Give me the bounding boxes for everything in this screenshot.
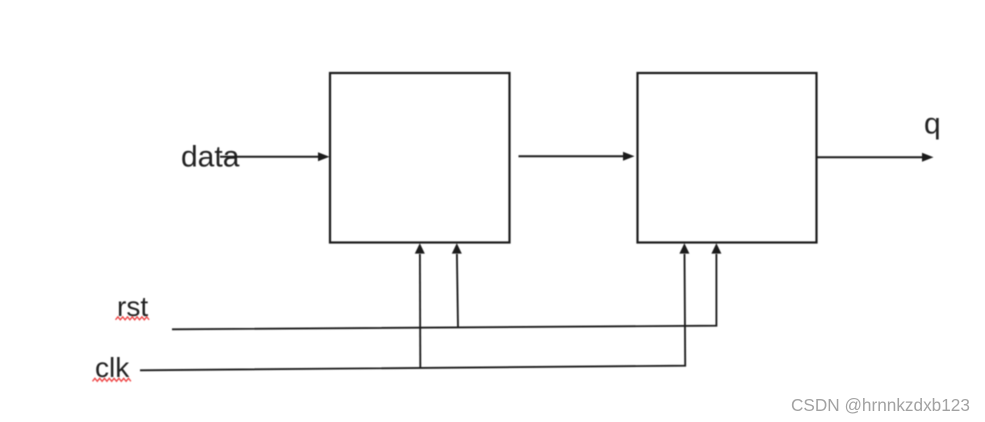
svg-text:q: q [924,108,941,141]
